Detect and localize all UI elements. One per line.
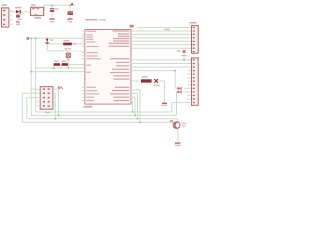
ground below LED1 xyxy=(162,103,168,106)
connector SV1 xyxy=(190,22,199,53)
diode D4 vertical xyxy=(46,39,54,43)
diode D2 xyxy=(178,87,182,90)
node mark near Q2 xyxy=(170,120,173,122)
connector SV2 xyxy=(192,58,199,105)
resistor R1 xyxy=(63,40,77,45)
capacitor C3 xyxy=(67,11,73,15)
wire y71.6 net xyxy=(31,71,85,73)
supply VCC arrow xyxy=(71,2,74,5)
wire switch lower stub xyxy=(67,58,69,68)
node left rails xyxy=(28,38,85,115)
wire reset net y38.2 xyxy=(28,37,85,39)
wire collector/emitter xyxy=(177,129,179,143)
wire IC right to connector SV1 xyxy=(131,28,192,49)
crystal Q1 mark xyxy=(177,50,187,56)
junction dots xyxy=(30,37,32,39)
switch S1 reset xyxy=(65,48,71,58)
ground below Q2 xyxy=(175,143,181,147)
wire rail x31.2 xyxy=(30,38,32,115)
resistor R4 xyxy=(141,76,152,83)
wire rail x35.7 xyxy=(35,38,37,112)
connector X1 power jack xyxy=(2,4,13,27)
wire IC right mid nets xyxy=(131,54,192,115)
junction node riser xyxy=(174,70,176,72)
diode D1 xyxy=(15,7,21,14)
junction rail dots xyxy=(51,4,53,6)
ground below C3 xyxy=(67,18,72,22)
wire header nets xyxy=(22,89,58,122)
wire y50.8 net xyxy=(47,51,68,53)
IC1 left pin stubs xyxy=(82,31,85,101)
transistor Q2 xyxy=(173,122,186,129)
capacitor C2 xyxy=(50,8,59,12)
junction bus taps xyxy=(132,111,134,113)
wire bottom buses xyxy=(22,90,191,125)
resistor R3 xyxy=(62,61,68,66)
ground below C2 xyxy=(50,18,55,22)
IC1 left pin labels xyxy=(86,31,101,102)
diode D3 xyxy=(178,91,182,94)
wire y68 net xyxy=(36,67,85,69)
LED LED1 xyxy=(154,79,160,86)
wire LED net xyxy=(131,81,165,103)
wire y43.7 net xyxy=(47,43,85,45)
voltage regulator IC2 xyxy=(31,4,44,18)
connector JP1 ICSP header xyxy=(40,87,63,114)
node mark x xyxy=(27,37,29,39)
node AREF mark xyxy=(130,25,134,28)
IC1 right pin labels xyxy=(109,30,130,101)
junction node crystal line xyxy=(183,59,185,61)
IC1 microcontroller xyxy=(83,19,131,108)
resistor R2 xyxy=(54,61,60,66)
wire vertical to switch line xyxy=(46,44,48,51)
wire y64.5 net xyxy=(60,64,85,66)
wire: power input net xyxy=(9,5,75,21)
ground below C1 xyxy=(16,22,20,26)
capacitor C1 xyxy=(16,15,22,20)
